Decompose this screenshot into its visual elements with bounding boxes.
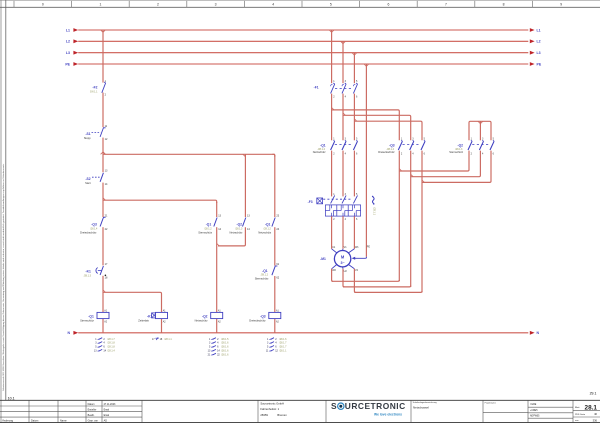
main contactor Q1 poles [331, 141, 335, 150]
svg-text:Dreieckschütz: Dreieckschütz [249, 319, 266, 323]
svg-text:-F3: -F3 [308, 200, 313, 204]
NO contact Q2 on wire A [243, 218, 246, 227]
svg-text:Dreieckschütz: Dreieckschütz [80, 230, 97, 234]
svg-text:10.1: 10.1 [8, 396, 15, 400]
wire contact-wire C to coil Q2 [216, 227, 218, 312]
wire motor V2 down [354, 269, 355, 293]
svg-text:/28.1.6: /28.1.6 [221, 342, 229, 345]
wire F1 to Q1 pole 2 [342, 94, 344, 141]
node rail taps for motor feeder [329, 30, 331, 32]
neutral rail N [78, 332, 528, 334]
svg-text:Schaltanlagenbezeichnung: Schaltanlagenbezeichnung [413, 401, 437, 404]
node branch junction on W1 at self-hold rung [101, 152, 103, 154]
wire star point bridge [469, 121, 491, 140]
svg-text:AD: AD [104, 419, 108, 422]
node T junction star link pole 3 [422, 180, 424, 182]
svg-text:Bearb.: Bearb. [88, 414, 95, 417]
svg-text:27.11.2023: 27.11.2023 [104, 403, 116, 406]
wire branch to Q3 pole 2 [343, 115, 411, 140]
svg-text:PE: PE [537, 62, 542, 66]
wire motor U2 down [343, 269, 344, 287]
S2 actuator dashed link [92, 176, 100, 178]
wire L1 drop to F1 [331, 30, 333, 83]
svg-text:/28.1.2: /28.1.2 [204, 227, 212, 230]
svg-text:Ersal: Ersal [104, 408, 110, 411]
delta contactor Q3 poles [398, 141, 402, 150]
wire contact-wire B through segment [274, 155, 276, 217]
svg-text:/28.1.6: /28.1.6 [221, 353, 229, 356]
svg-text:28359: 28359 [260, 413, 268, 417]
svg-text:/28.1.6: /28.1.6 [221, 346, 229, 349]
svg-text:-F1: -F1 [314, 86, 319, 90]
node branch junction feeder pole 1 to delta contactor [332, 108, 334, 110]
svg-text:Netzschütz: Netzschütz [258, 231, 272, 235]
wire Q1 to F3 pole 1 [331, 151, 333, 197]
structure cell [527, 400, 529, 422]
svg-text:-S2: -S2 [85, 177, 90, 181]
svg-text:Gepr. von: Gepr. von [88, 419, 99, 422]
svg-text:Fahrenheitstr. 1: Fahrenheitstr. 1 [260, 407, 279, 411]
wire coil Q1 to N [102, 319, 104, 333]
svg-text:/28.1.7: /28.1.7 [279, 346, 287, 349]
wire motor W2 down [332, 269, 333, 282]
coil -Q1 box [97, 312, 109, 318]
wire W1 segment S2 to Q3 contact [102, 183, 104, 217]
svg-text:0: 0 [42, 3, 44, 7]
svg-text:-Q3: -Q3 [91, 222, 97, 226]
svg-text:We love electrons: We love electrons [374, 412, 402, 416]
wire motor bottom link pole 3 [354, 291, 422, 292]
node branch junction feeder pole 3 to delta contactor [354, 119, 356, 121]
svg-text:/28.1.2: /28.1.2 [261, 274, 269, 277]
wire coil Q3 to N [274, 319, 276, 333]
svg-text:-K1: -K1 [147, 314, 152, 318]
svg-text:L2: L2 [66, 40, 70, 44]
svg-text:28.1: 28.1 [585, 405, 598, 412]
svg-text:Blatt: Blatt [575, 406, 580, 409]
motor terminal stubs top [332, 249, 337, 253]
svg-text:5: 5 [330, 3, 332, 7]
node L1 tap junction for control wire [101, 30, 103, 32]
svg-text:/28.1.7: /28.1.7 [279, 342, 287, 345]
project name cell [482, 400, 484, 422]
node T junction to contact wire A [243, 154, 246, 156]
svg-text:Sternschütz: Sternschütz [255, 277, 269, 281]
node star bridge junction [478, 121, 480, 123]
wire contact-wire C upper segment [216, 202, 218, 217]
svg-text:Netzschütz: Netzschütz [195, 319, 209, 323]
coil -Q3 box [269, 312, 281, 318]
column ruler dividers [13, 1, 15, 8]
node T junction star link pole 2 [411, 174, 413, 176]
motor circuit breaker F1 [331, 84, 335, 93]
svg-text:-Q1: -Q1 [320, 143, 326, 147]
wire star link horizontal pole 3 [422, 151, 491, 183]
wire coil Q2 to N [216, 319, 218, 333]
svg-text:-F2: -F2 [93, 85, 98, 89]
S1 actuator dashed link [92, 131, 101, 133]
wire star point middle riser [479, 121, 481, 140]
wire star link horizontal pole 1 [399, 151, 469, 171]
svg-text:Ersal: Ersal [104, 414, 110, 417]
wire PE into motor with ground arrow [355, 257, 366, 259]
wire contact-wire B middle segment [274, 227, 276, 265]
wire branch to Q3 pole 1 [332, 110, 400, 140]
svg-text:-Q1: -Q1 [88, 314, 94, 318]
svg-text:PE: PE [367, 246, 371, 249]
svg-text:/28.1.8: /28.1.8 [107, 342, 115, 345]
svg-text:-Q2: -Q2 [237, 222, 243, 226]
coil -Q2 box [211, 312, 223, 318]
stop pushbutton S1 symbol [100, 128, 103, 137]
wire F3 to motor U1 [331, 216, 333, 249]
svg-text:-Q3: -Q3 [389, 143, 395, 147]
svg-text:L3: L3 [537, 51, 541, 55]
svg-text:/28.1.1: /28.1.1 [279, 350, 287, 353]
coil K1 timer symbol [152, 313, 157, 318]
svg-text:Datum: Datum [31, 420, 38, 423]
F1 pole linkage dashed line [335, 87, 353, 89]
rail L1 right destination arrow [530, 28, 535, 32]
svg-text:Sternschütz: Sternschütz [80, 319, 94, 323]
svg-text:3~: 3~ [341, 261, 345, 265]
thermal overload relay F3 [331, 195, 335, 203]
svg-text:Stopp: Stopp [84, 136, 91, 140]
svg-text:+CRE5: +CRE5 [530, 410, 538, 412]
wire F1 to Q1 pole 3 [353, 94, 355, 141]
svg-text:L1: L1 [537, 28, 541, 32]
svg-text:Schutzvermerk ISO 16016 beacht: Schutzvermerk ISO 16016 beachten. Weiter… [2, 163, 5, 391]
power rail L1 [78, 29, 528, 31]
svg-text:336: 336 [593, 418, 598, 422]
wire Q3 pole 3 down to motor link [421, 151, 423, 293]
svg-text:Netzschütz: Netzschütz [230, 231, 244, 235]
svg-text:Ersteller: Ersteller [88, 408, 97, 411]
svg-text:2: 2 [157, 3, 159, 7]
drawing frame left border [5, 0, 7, 400]
NO contact Q1 on wire B [272, 218, 275, 227]
sheet outer top border [0, 0, 600, 2]
svg-text:-Q2: -Q2 [458, 143, 464, 147]
wire star link horizontal pole 2 [411, 151, 481, 177]
wire motor bottom link pole 2 [343, 286, 411, 287]
wire Q3 pole 1 down to motor link [398, 151, 400, 282]
svg-text:-Q3: -Q3 [260, 314, 266, 318]
logo cell border [325, 400, 327, 422]
column ruler bottom line [0, 6, 600, 8]
wire contact-wire A upper segment [244, 154, 246, 217]
svg-text:S: S [331, 401, 337, 411]
svg-text:/28.1.1: /28.1.1 [372, 207, 375, 215]
svg-text:Netzdrossel: Netzdrossel [413, 405, 429, 409]
svg-text:Sternschütz: Sternschütz [449, 150, 463, 154]
svg-text:L2: L2 [537, 40, 541, 44]
title block company cell [257, 400, 259, 422]
node merge junction into contact wire C [217, 244, 219, 246]
svg-text:/28.1.3: /28.1.3 [235, 227, 243, 230]
wire branch to Q3 pole 3 [354, 121, 422, 140]
svg-text:PDF-Seite: PDF-Seite [575, 413, 586, 416]
wire contact-wire A lower segment to merge [241, 227, 245, 246]
svg-text:Netzschütz: Netzschütz [313, 150, 327, 154]
wire Q1 to F3 pole 3 [353, 151, 355, 197]
wire Q3 pole 2 down to motor link [410, 151, 412, 287]
motor M1 circle [334, 251, 350, 267]
svg-text:/28.1.6: /28.1.6 [279, 338, 287, 341]
wire Q1 to F3 pole 2 [342, 151, 344, 197]
wire branch to coil K1 [103, 292, 162, 312]
logo O eye symbol [338, 403, 344, 409]
wire corner down to contact wire B [272, 154, 274, 157]
svg-text:/28.1.1: /28.1.1 [164, 338, 172, 341]
svg-text:8: 8 [503, 3, 505, 7]
rail N left source arrow [73, 331, 78, 335]
svg-text:Name: Name [60, 420, 67, 423]
wire F3 to motor V1 [342, 216, 344, 249]
timer contact K1 delayed NO symbol [100, 266, 103, 275]
Q1 pole linkage dashed line [335, 144, 353, 146]
svg-text:URCETRONIC: URCETRONIC [345, 401, 406, 411]
svg-text:6: 6 [387, 3, 389, 7]
sheet outer left border [0, 0, 2, 423]
svg-text:Projektname: Projektname [485, 401, 497, 404]
wire motor bottom link pole 1 [332, 280, 400, 281]
K1 contact junction dot [105, 275, 107, 277]
rail PE left source arrow [73, 62, 78, 66]
star contactor Q2 poles [468, 141, 472, 150]
svg-text:=GRE: =GRE [530, 404, 537, 406]
svg-text:/28.1.4: /28.1.4 [107, 350, 115, 353]
power rail PE [78, 63, 528, 65]
rail L3 left source arrow [73, 51, 78, 55]
svg-text:/28.1.4: /28.1.4 [90, 227, 98, 230]
svg-text:Dreieckschütz: Dreieckschütz [378, 150, 395, 154]
svg-text:4: 4 [272, 3, 274, 7]
Q3 pole linkage dashed line [403, 144, 421, 146]
rail L1 left source arrow [73, 28, 78, 32]
svg-text:9: 9 [560, 3, 562, 7]
node branch junction on W1 lower rung [103, 198, 105, 200]
svg-text:/28.1.7: /28.1.7 [107, 338, 115, 341]
coil -K1 box [156, 312, 168, 318]
svg-text:-K1: -K1 [85, 269, 90, 273]
wire W1 segment F2 to S1 [102, 93, 104, 128]
svg-text:-Q2: -Q2 [202, 314, 208, 318]
svg-text:-M1: -M1 [320, 257, 326, 261]
title block revision grid [0, 405, 142, 407]
wire coil K1 to N [161, 319, 163, 333]
auxiliary NC contact Q3 on control wire [100, 218, 103, 227]
svg-text:/28.1.3: /28.1.3 [84, 274, 92, 277]
node PE tap junction [364, 64, 366, 66]
svg-text:Datum: Datum [88, 403, 95, 406]
power rail L3 [78, 52, 528, 54]
svg-text:-Q1: -Q1 [262, 269, 268, 273]
node branch junction on W1 to timer coil [103, 290, 105, 292]
wire self-hold branch horizontal [103, 153, 275, 155]
svg-text:29.1: 29.1 [590, 392, 597, 396]
wire L2 drop to F1 [342, 41, 344, 83]
svg-text:L3: L3 [66, 51, 70, 55]
svg-text:-Q1: -Q1 [265, 222, 271, 226]
svg-text:Sourcetronic GmbH: Sourcetronic GmbH [260, 402, 284, 406]
svg-text:Start: Start [85, 181, 91, 185]
circuit breaker F2 symbol [102, 83, 106, 93]
F3 trip aux symbol [372, 197, 374, 204]
wire PE drop to motor [365, 64, 367, 257]
Q2 pole linkage dashed line [472, 144, 489, 146]
svg-text:3: 3 [215, 3, 217, 7]
rail N right destination arrow [530, 331, 535, 335]
title block outer lines [0, 399, 600, 401]
wire W1 segment Q3 contact to K1 contact [102, 227, 104, 265]
rail PE right destination arrow [530, 62, 535, 66]
svg-text:ADPW05: ADPW05 [530, 415, 540, 418]
svg-text:7: 7 [445, 3, 447, 7]
wire F3 to motor W1 [353, 216, 355, 249]
sheet number cell [572, 400, 574, 422]
svg-text:/28.1.8: /28.1.8 [107, 346, 115, 349]
rail L2 right destination arrow [530, 39, 535, 43]
node T junction star link pole 1 [399, 169, 401, 171]
svg-text:M: M [341, 254, 345, 259]
rail L3 right destination arrow [530, 51, 535, 55]
F3 linkage dashed line [323, 198, 352, 200]
wire F1 to Q1 pole 1 [331, 94, 333, 141]
start pushbutton S2 symbol [100, 173, 103, 182]
wire lower rung horizontal [103, 200, 217, 203]
svg-text:GN 1.1: GN 1.1 [90, 90, 98, 93]
svg-text:Bremen: Bremen [277, 413, 287, 417]
svg-text:1: 1 [99, 3, 101, 7]
motor terminal stubs bottom [332, 264, 337, 268]
svg-text:PE: PE [65, 62, 70, 66]
wire W1 segment K1 contact to coil Q1 [102, 276, 104, 313]
svg-text:Zeitrelais: Zeitrelais [138, 319, 149, 323]
svg-text:/28.1.2: /28.1.2 [263, 227, 271, 230]
svg-text:/28.1.5: /28.1.5 [221, 338, 229, 341]
F3 operator symbol [317, 198, 323, 204]
rail L2 left source arrow [73, 39, 78, 43]
self-hold NO contact Q1 on wire C [214, 218, 217, 227]
svg-text:-S1: -S1 [85, 132, 90, 136]
NC interlock contact Q1 on wire B [272, 266, 275, 275]
wire W1 segment S1 to S2 [102, 138, 104, 173]
svg-text:L1: L1 [66, 28, 70, 32]
svg-text:Änderung: Änderung [2, 420, 13, 423]
svg-text:-Q1: -Q1 [206, 222, 212, 226]
wire contact-wire B to coil Q3 [274, 276, 276, 312]
F3 thermal element boxes [325, 205, 337, 216]
svg-text:/28.1.6: /28.1.6 [221, 350, 229, 353]
wire W1 segment L1 to F2 [102, 30, 104, 83]
node branch junction feeder pole 2 to delta contactor [343, 113, 345, 115]
svg-text:Sternschütz: Sternschütz [198, 231, 212, 235]
power rail L2 [78, 40, 528, 42]
wire L3 drop to F1 [353, 53, 355, 83]
